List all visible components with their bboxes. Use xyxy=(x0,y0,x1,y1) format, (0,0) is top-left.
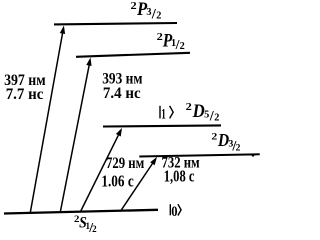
svg-text:2: 2 xyxy=(156,10,161,21)
transition arrow 732nm (S1/2 to D3/2) xyxy=(120,157,157,212)
transition arrow 729nm (S1/2 to D5/2) xyxy=(80,128,122,212)
svg-text:729 нм: 729 нм xyxy=(106,155,145,172)
svg-text:1.06 с: 1.06 с xyxy=(101,172,134,191)
svg-text:0: 0 xyxy=(171,204,177,220)
label ket |0> xyxy=(170,204,181,220)
label 2P1/2 xyxy=(157,30,185,52)
svg-text:2: 2 xyxy=(92,224,97,234)
svg-text:2: 2 xyxy=(180,41,185,52)
svg-text:1,08 с: 1,08 с xyxy=(164,167,195,186)
svg-text:2: 2 xyxy=(211,132,217,142)
level line 2P3/2 xyxy=(54,23,177,24)
label ket |1> xyxy=(160,106,173,123)
label 2D5/2 xyxy=(186,101,220,125)
svg-text:D: D xyxy=(192,101,205,122)
level line 2P1/2 xyxy=(76,53,190,57)
svg-text:5: 5 xyxy=(204,109,209,120)
svg-text:7.4 нс: 7.4 нс xyxy=(103,85,141,102)
svg-text:2: 2 xyxy=(131,1,137,12)
svg-text:D: D xyxy=(217,130,229,150)
label 2D3/2 xyxy=(211,130,240,154)
label 2P3/2 xyxy=(131,0,162,22)
level line 2D3/2 xyxy=(139,154,259,156)
transition arrow 393nm (S1/2 to P1/2) xyxy=(60,58,91,212)
level line 2D5/2 xyxy=(103,125,221,126)
tick on D3/2 line xyxy=(251,155,255,157)
transition arrow 397nm (S1/2 to P3/2) xyxy=(30,26,65,213)
svg-text:2: 2 xyxy=(214,113,219,124)
svg-text:1: 1 xyxy=(161,106,166,123)
svg-text:2: 2 xyxy=(236,142,241,153)
svg-text:2: 2 xyxy=(186,102,192,113)
label 2S1/2 xyxy=(74,214,97,235)
svg-text:7.7 нс: 7.7 нс xyxy=(6,86,44,103)
ground level line 2S1/2 xyxy=(4,210,158,214)
